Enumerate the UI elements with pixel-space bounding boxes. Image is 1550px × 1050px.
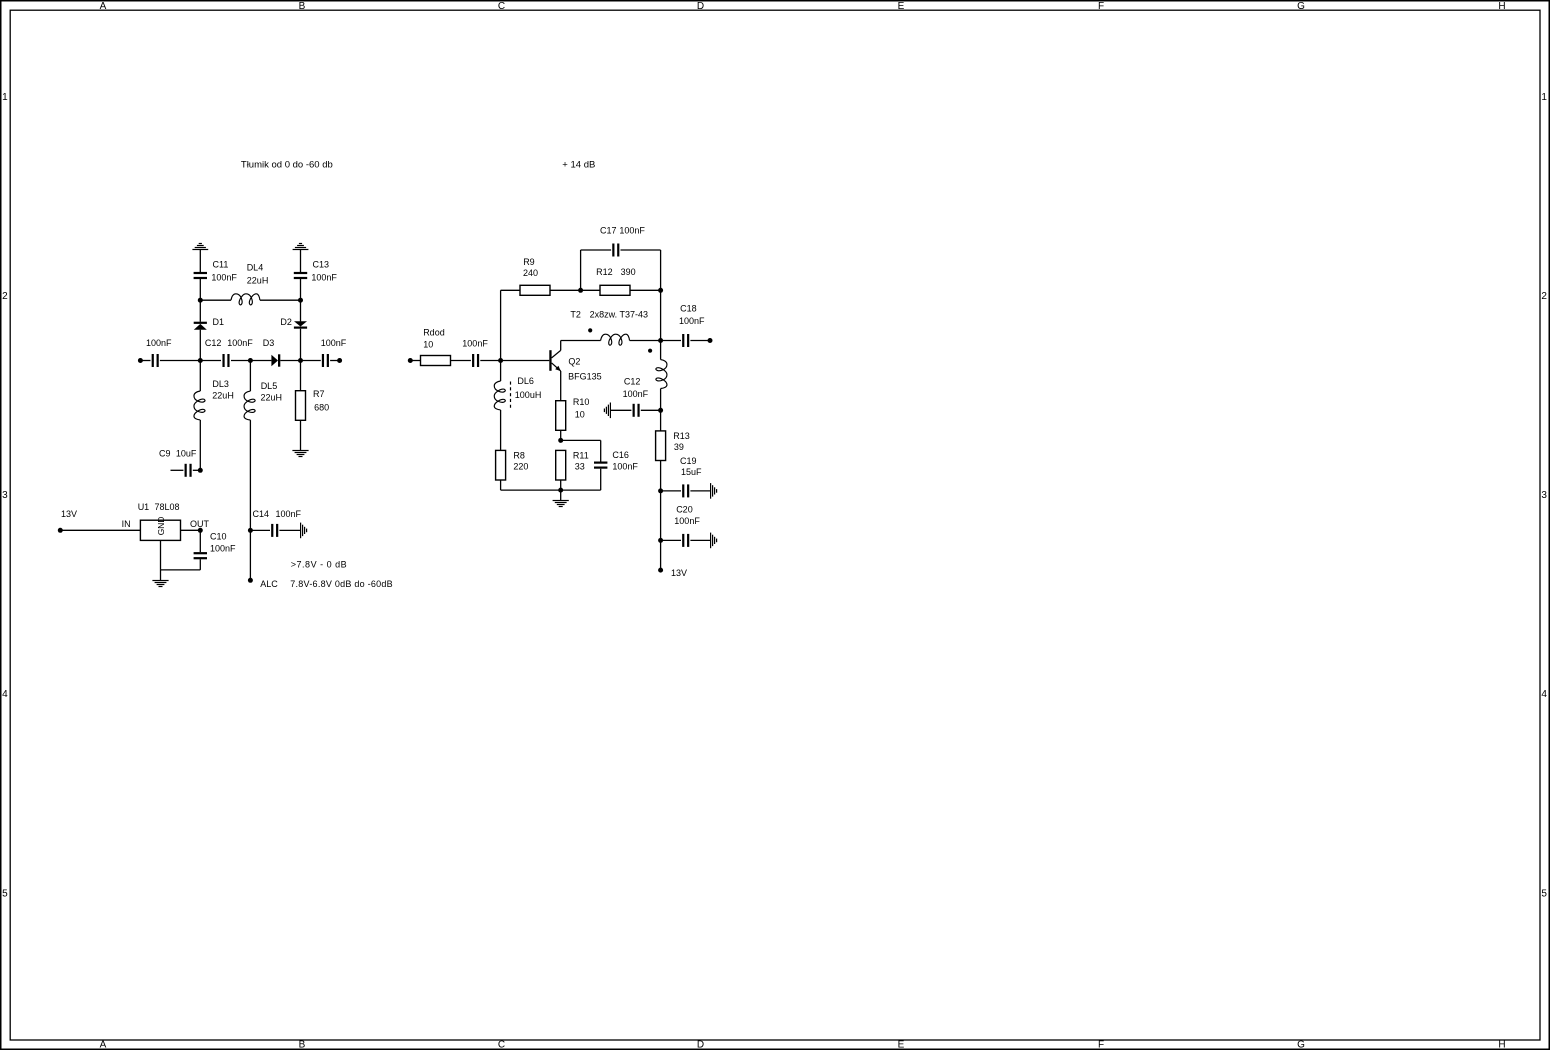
svg-text:>7.8V - 0 dB: >7.8V - 0 dB <box>291 559 347 569</box>
svg-text:A: A <box>100 1039 107 1050</box>
svg-text:22uH: 22uH <box>261 393 283 403</box>
svg-text:Tłumik od 0 do -60 db: Tłumik od 0 do -60 db <box>241 160 333 171</box>
svg-text:100nF: 100nF <box>146 338 172 348</box>
svg-text:100nF: 100nF <box>619 226 645 236</box>
svg-text:IN: IN <box>122 519 131 529</box>
svg-text:5: 5 <box>2 889 8 900</box>
svg-text:H: H <box>1498 1 1505 12</box>
svg-text:R13: R13 <box>673 431 690 441</box>
svg-text:C: C <box>498 1 505 12</box>
svg-text:10: 10 <box>575 409 585 419</box>
svg-text:3: 3 <box>2 490 8 501</box>
svg-text:100nF: 100nF <box>462 339 488 349</box>
svg-text:100nF: 100nF <box>276 509 302 519</box>
svg-text:10: 10 <box>423 340 433 350</box>
svg-text:R10: R10 <box>573 397 590 407</box>
svg-text:F: F <box>1098 1039 1104 1050</box>
svg-text:5: 5 <box>1541 889 1547 900</box>
svg-text:B: B <box>299 1 306 12</box>
svg-text:2: 2 <box>1541 291 1547 302</box>
svg-text:R7: R7 <box>313 389 325 399</box>
svg-text:220: 220 <box>513 461 528 471</box>
svg-text:H: H <box>1498 1039 1505 1050</box>
svg-text:D1: D1 <box>213 317 225 327</box>
svg-text:DL5: DL5 <box>261 381 278 391</box>
svg-text:C13: C13 <box>313 260 330 270</box>
svg-text:DL6: DL6 <box>517 376 534 386</box>
svg-text:2: 2 <box>2 291 8 302</box>
svg-text:D3: D3 <box>263 338 275 348</box>
svg-text:4: 4 <box>2 689 8 700</box>
svg-text:OUT: OUT <box>190 519 210 529</box>
svg-text:100nF: 100nF <box>210 544 236 554</box>
svg-text:G: G <box>1297 1 1305 12</box>
svg-text:E: E <box>898 1039 905 1050</box>
svg-text:22uH: 22uH <box>212 391 234 401</box>
svg-text:Q2: Q2 <box>568 357 580 367</box>
svg-text:1: 1 <box>2 92 8 103</box>
svg-text:U1: U1 <box>138 502 150 512</box>
svg-text:ALC: ALC <box>260 579 278 589</box>
svg-text:R8: R8 <box>513 451 525 461</box>
svg-text:R11: R11 <box>573 451 589 461</box>
svg-text:R12: R12 <box>596 267 613 277</box>
svg-text:E: E <box>898 1 905 12</box>
svg-text:D2: D2 <box>280 317 292 327</box>
svg-text:1: 1 <box>1541 92 1547 103</box>
svg-text:2x8zw. T37-43: 2x8zw. T37-43 <box>590 310 648 320</box>
svg-text:C20: C20 <box>676 504 693 514</box>
svg-text:BFG135: BFG135 <box>568 371 602 381</box>
svg-text:22uH: 22uH <box>247 276 269 286</box>
svg-text:R9: R9 <box>523 257 535 267</box>
svg-text:C12: C12 <box>205 338 222 348</box>
svg-text:C9: C9 <box>159 448 171 458</box>
svg-text:C18: C18 <box>680 304 697 314</box>
svg-text:F: F <box>1098 1 1104 12</box>
svg-text:C11: C11 <box>213 260 229 270</box>
svg-text:C16: C16 <box>612 450 629 460</box>
svg-text:DL4: DL4 <box>247 262 264 272</box>
svg-text:13V: 13V <box>671 568 687 578</box>
svg-text:C12: C12 <box>624 377 641 387</box>
svg-text:33: 33 <box>575 461 585 471</box>
svg-text:100uH: 100uH <box>515 390 542 400</box>
svg-text:390: 390 <box>621 267 636 277</box>
svg-text:7.8V-6.8V 0dB do -60dB: 7.8V-6.8V 0dB do -60dB <box>290 579 393 589</box>
svg-text:680: 680 <box>314 403 329 413</box>
svg-text:78L08: 78L08 <box>155 502 180 512</box>
svg-text:13V: 13V <box>61 509 77 519</box>
svg-text:C17: C17 <box>600 226 617 236</box>
svg-text:G: G <box>1297 1039 1305 1050</box>
svg-text:3: 3 <box>1541 490 1547 501</box>
svg-text:100nF: 100nF <box>227 338 253 348</box>
svg-text:100nF: 100nF <box>674 516 700 526</box>
svg-text:C: C <box>498 1039 505 1050</box>
svg-text:240: 240 <box>523 268 538 278</box>
svg-text:GND: GND <box>156 517 166 536</box>
svg-text:C14: C14 <box>253 509 270 519</box>
svg-text:T2: T2 <box>570 310 581 320</box>
svg-text:100nF: 100nF <box>211 273 237 283</box>
svg-text:Rdod: Rdod <box>423 328 445 338</box>
svg-text:15uF: 15uF <box>681 467 702 477</box>
svg-text:D: D <box>697 1039 704 1050</box>
svg-text:B: B <box>299 1039 306 1050</box>
svg-text:100nF: 100nF <box>321 338 347 348</box>
svg-text:DL3: DL3 <box>212 379 229 389</box>
svg-text:4: 4 <box>1541 689 1547 700</box>
svg-text:100nF: 100nF <box>623 389 649 399</box>
svg-text:+ 14 dB: + 14 dB <box>562 160 595 171</box>
svg-text:100nF: 100nF <box>311 273 337 283</box>
svg-text:D: D <box>697 1 704 12</box>
svg-text:10uF: 10uF <box>176 448 197 458</box>
svg-text:C10: C10 <box>210 532 227 542</box>
svg-text:100nF: 100nF <box>612 462 638 472</box>
svg-text:A: A <box>100 1 107 12</box>
svg-text:100nF: 100nF <box>679 316 705 326</box>
svg-text:39: 39 <box>674 442 684 452</box>
svg-text:C19: C19 <box>680 456 697 466</box>
